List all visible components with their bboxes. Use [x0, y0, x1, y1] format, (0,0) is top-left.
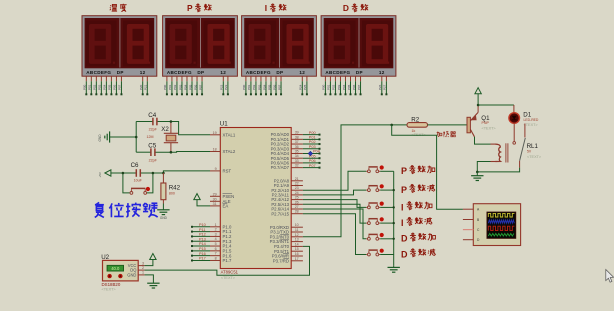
svg-text:X2: X2: [161, 126, 169, 133]
svg-text:40.0: 40.0: [111, 266, 120, 271]
reset push button: [122, 172, 155, 195]
wire relay common to ground node: [476, 168, 520, 174]
svg-text:3: 3: [215, 232, 217, 236]
svg-text:P22: P22: [220, 84, 224, 90]
svg-text:17: 17: [295, 257, 299, 261]
svg-text:P17: P17: [199, 257, 206, 261]
ground (R42): [157, 204, 169, 221]
svg-text:P2.7/A15: P2.7/A15: [271, 211, 289, 216]
svg-text:P3.7/RD: P3.7/RD: [273, 258, 289, 263]
svg-text:30: 30: [213, 197, 217, 201]
svg-text:P12: P12: [199, 233, 206, 237]
mouse cursor: [606, 270, 614, 283]
svg-text:27: 27: [295, 205, 299, 209]
svg-text:AT89C51: AT89C51: [221, 270, 239, 275]
svg-text:34: 34: [295, 154, 299, 158]
wire collector to relay coil: [475, 137, 491, 144]
svg-text:C6: C6: [131, 162, 139, 169]
svg-text:P00: P00: [83, 84, 87, 90]
wires: DS1 digit select pins 1,2: [139, 76, 148, 95]
push button D参数减: [366, 249, 384, 256]
svg-text:12M: 12M: [147, 135, 154, 139]
wires: DS2 segment pins A-G,DP: [163, 76, 203, 95]
svg-text:P03: P03: [337, 84, 341, 90]
svg-text:D: D: [401, 234, 408, 244]
svg-text:XTAL2: XTAL2: [223, 149, 236, 154]
push button P参数减: [366, 184, 384, 191]
svg-text:P00: P00: [309, 131, 316, 135]
svg-text:R42: R42: [169, 185, 181, 192]
svg-text:P14: P14: [199, 242, 206, 246]
svg-text:P02: P02: [332, 84, 336, 90]
svg-text:P20: P20: [139, 84, 143, 90]
svg-text:DP: DP: [197, 70, 204, 75]
svg-text:37: 37: [295, 140, 299, 144]
svg-text:P11: P11: [199, 228, 205, 232]
power +5V (Q1 emitter): [475, 88, 481, 105]
svg-text:7: 7: [215, 252, 217, 256]
capacitor C6: [111, 162, 163, 182]
svg-text:22: 22: [295, 182, 299, 186]
wire R2 to Q1 base: [392, 124, 467, 127]
svg-text:10: 10: [295, 223, 299, 227]
7-segment display DS4 (D value): [321, 16, 396, 76]
svg-text:21: 21: [295, 177, 299, 181]
wire XTAL2 net: [170, 151, 210, 154]
svg-text:28: 28: [295, 210, 299, 214]
power (U2 VCC): [145, 254, 157, 266]
LED D1: [509, 105, 539, 127]
svg-text:P13: P13: [199, 237, 206, 241]
svg-text:P06: P06: [113, 84, 117, 90]
svg-text:12: 12: [299, 70, 305, 75]
7-segment display DS3 (I value): [242, 16, 317, 76]
svg-text:ABCDEFG: ABCDEFG: [325, 70, 350, 75]
svg-text:16: 16: [295, 252, 299, 256]
label P参数减: [401, 184, 435, 195]
svg-text:P07: P07: [277, 84, 281, 90]
wires: P0 bus net labels P00-P07: [303, 131, 321, 169]
svg-text:RST: RST: [223, 169, 232, 174]
svg-text:DP: DP: [276, 70, 283, 75]
wires: P1 net labels P10-P17: [191, 223, 210, 261]
ground (crystal caps, rotated): [98, 131, 138, 142]
svg-text:ABCDEFG: ABCDEFG: [86, 70, 111, 75]
wire relay coil to ground node: [477, 162, 490, 172]
oscilloscope: [463, 204, 521, 246]
svg-text:EA: EA: [223, 204, 229, 209]
wire crystal left rail: [135, 122, 137, 153]
svg-text:ABCDEFG: ABCDEFG: [246, 70, 271, 75]
svg-text:29: 29: [213, 192, 217, 196]
svg-text:P10: P10: [199, 223, 206, 227]
svg-text:8: 8: [215, 256, 217, 260]
svg-text:P04: P04: [313, 150, 320, 154]
svg-text:11: 11: [295, 228, 299, 232]
crystal X2: [147, 122, 179, 153]
svg-text:10uF: 10uF: [134, 179, 143, 183]
svg-text:P21: P21: [144, 84, 148, 90]
svg-text:14: 14: [295, 242, 299, 246]
ground (U2 GND): [145, 275, 160, 288]
svg-text:P26: P26: [378, 84, 382, 90]
wires: DS1 segment pins A-G,DP: [83, 76, 123, 95]
svg-text:25: 25: [295, 196, 299, 200]
svg-text:32: 32: [295, 164, 299, 168]
svg-text:39: 39: [295, 131, 299, 135]
label D参数: [343, 3, 368, 13]
svg-text:P27: P27: [383, 84, 387, 90]
svg-text:P24: P24: [299, 84, 303, 90]
label 温度: [110, 4, 127, 12]
svg-text:C5: C5: [148, 142, 156, 149]
svg-text:GND: GND: [98, 134, 102, 142]
7-segment display DS2 (P value): [163, 16, 238, 76]
label 复位按键 (blue): [95, 202, 158, 217]
svg-text:I: I: [265, 3, 267, 13]
wire P2.3 to button P参数减: [303, 190, 366, 195]
svg-text:23: 23: [295, 186, 299, 190]
push button I参数加: [366, 202, 384, 209]
svg-text:35: 35: [295, 149, 299, 153]
svg-text:P01: P01: [168, 84, 172, 90]
wires: DS4 segment pins A-G,DP: [322, 76, 362, 95]
svg-text:P06: P06: [272, 84, 276, 90]
svg-text:P02: P02: [93, 84, 97, 90]
wire P3.2 to R2: [303, 125, 407, 237]
svg-text:P07: P07: [309, 164, 316, 168]
svg-text:U1: U1: [220, 120, 228, 127]
svg-text:U2: U2: [101, 254, 109, 261]
svg-text:13: 13: [295, 238, 299, 242]
wire P2.7 to button D参数减: [303, 214, 366, 255]
svg-text:P07: P07: [118, 84, 122, 90]
svg-text:P07: P07: [198, 84, 202, 90]
wire DQ to P3.4: [145, 246, 310, 275]
svg-text:D: D: [343, 3, 349, 13]
svg-text:P05: P05: [188, 84, 192, 90]
svg-text:P00: P00: [322, 84, 326, 90]
wire P2.6 to button D参数加: [303, 209, 366, 239]
svg-text:P0.7/AD7: P0.7/AD7: [271, 165, 290, 170]
svg-text:33: 33: [295, 159, 299, 163]
svg-text:2: 2: [215, 228, 217, 232]
svg-text:38: 38: [295, 135, 299, 139]
wire P2.5 to button I参数减: [303, 204, 366, 223]
label I参数加: [401, 201, 432, 212]
svg-text:<TEXT>: <TEXT>: [482, 126, 497, 130]
svg-text:24: 24: [295, 191, 299, 195]
svg-text:DP: DP: [117, 70, 124, 75]
svg-text:LED-RED: LED-RED: [524, 118, 539, 122]
svg-text:P02: P02: [252, 84, 256, 90]
ground (relay): [471, 172, 483, 181]
relay RL1: [491, 124, 542, 168]
svg-text:<TEXT>: <TEXT>: [527, 155, 542, 159]
label I参数: [265, 3, 287, 13]
svg-text:P05: P05: [267, 84, 271, 90]
svg-text:P01: P01: [309, 136, 316, 140]
svg-text:12: 12: [140, 70, 146, 75]
svg-text:P03: P03: [98, 84, 102, 90]
svg-text:3: 3: [142, 261, 144, 265]
svg-text:P23: P23: [224, 84, 228, 90]
wire XTAL1 net: [170, 120, 210, 135]
svg-text:P04: P04: [342, 84, 346, 90]
svg-text:1: 1: [215, 223, 217, 227]
7-segment display DS1 (temperature): [82, 16, 157, 76]
svg-text:P06: P06: [352, 84, 356, 90]
svg-text:GND: GND: [127, 273, 136, 278]
svg-text:I: I: [401, 202, 404, 212]
power +5V (left arrow): [98, 170, 111, 178]
svg-text:36: 36: [295, 145, 299, 149]
label P参数加: [401, 165, 435, 176]
svg-text:P06: P06: [193, 84, 197, 90]
push button D参数加: [366, 233, 384, 240]
microcontroller U1 AT89C51 body: [220, 120, 291, 279]
svg-text:P05: P05: [347, 84, 351, 90]
svg-text:P01: P01: [327, 84, 331, 90]
svg-text:2: 2: [142, 266, 144, 270]
capacitor C5: [136, 142, 171, 162]
svg-text:ABCDEFG: ABCDEFG: [167, 70, 192, 75]
svg-text:GND: GND: [160, 216, 168, 220]
svg-text:I: I: [401, 218, 404, 228]
svg-text:PNP: PNP: [482, 121, 490, 125]
svg-text:5V: 5V: [527, 150, 532, 154]
svg-text:XTAL1: XTAL1: [223, 132, 236, 137]
svg-text:P25: P25: [303, 84, 307, 90]
svg-text:800: 800: [169, 192, 175, 196]
svg-text:19: 19: [213, 131, 217, 135]
svg-text:15: 15: [295, 247, 299, 251]
svg-text:P: P: [187, 3, 193, 13]
svg-text:D: D: [401, 249, 408, 259]
wire emitter node: [477, 104, 514, 113]
svg-text:+5V: +5V: [98, 172, 102, 177]
svg-text:P15: P15: [199, 247, 206, 251]
wires: DS2 digit select pins 1,2: [220, 76, 229, 95]
svg-text:P03: P03: [309, 145, 316, 149]
svg-text:12: 12: [295, 233, 299, 237]
svg-text:P01: P01: [247, 84, 251, 90]
push button I参数减: [366, 217, 384, 224]
svg-text:<TEXT>: <TEXT>: [221, 276, 236, 280]
U1 right pin names and stubs: [270, 131, 303, 264]
wire button bus to ground: [380, 171, 395, 265]
svg-text:P00: P00: [242, 84, 246, 90]
wire P2.4 to button I参数加: [303, 200, 366, 208]
wire RST net: [162, 171, 210, 174]
voltage probe (blue diamond) on P0.4 net: [308, 151, 313, 156]
label D参数减: [401, 249, 436, 260]
svg-text:5: 5: [215, 242, 217, 246]
svg-text:6: 6: [215, 247, 217, 251]
push button P参数加: [366, 165, 384, 172]
wire P2.2 to button P参数加: [303, 171, 366, 190]
svg-text:P03: P03: [178, 84, 182, 90]
svg-text:P07: P07: [357, 84, 361, 90]
svg-text:22pF: 22pF: [149, 128, 158, 132]
svg-text:P04: P04: [262, 84, 266, 90]
svg-text:12: 12: [220, 70, 226, 75]
svg-text:P02: P02: [173, 84, 177, 90]
capacitor C4: [136, 112, 171, 132]
svg-text:P01: P01: [88, 84, 92, 90]
svg-text:P04: P04: [183, 84, 187, 90]
label P参数: [187, 3, 212, 13]
label D参数加: [401, 233, 435, 244]
svg-text:DS18B20: DS18B20: [102, 282, 121, 287]
svg-text:DP: DP: [356, 70, 363, 75]
wires: DS4 digit select pins 1,2: [378, 76, 387, 95]
svg-text:4: 4: [215, 237, 217, 241]
svg-text:9: 9: [215, 167, 217, 171]
svg-text:P: P: [401, 185, 407, 195]
label I参数减: [401, 217, 432, 228]
temperature sensor U2 DS18B20: [101, 254, 144, 292]
svg-text:P05: P05: [108, 84, 112, 90]
svg-text:1: 1: [142, 271, 144, 275]
wires: DS3 digit select pins 1,2: [299, 76, 308, 95]
svg-text:<TEXT>: <TEXT>: [524, 123, 539, 127]
resistor R2: [407, 116, 428, 137]
wire to oscilloscope A: [390, 124, 462, 210]
svg-text:26: 26: [295, 200, 299, 204]
svg-text:P06: P06: [309, 159, 316, 163]
svg-text:P1.7: P1.7: [223, 258, 232, 263]
U1 left pin names and stubs: [210, 131, 236, 263]
ground (buttons): [388, 266, 400, 272]
svg-text:P16: P16: [199, 252, 206, 256]
svg-text:31: 31: [213, 202, 217, 206]
wires: DS3 segment pins A-G,DP: [242, 76, 282, 95]
svg-text:P: P: [401, 166, 407, 176]
transistor Q1 (PNP): [467, 112, 496, 136]
resistor R42: [161, 173, 181, 204]
svg-text:P03: P03: [257, 84, 261, 90]
svg-text:P04: P04: [103, 84, 107, 90]
svg-text:P02: P02: [309, 140, 316, 144]
svg-text:12: 12: [379, 70, 385, 75]
svg-text:22pF: 22pF: [149, 158, 158, 162]
svg-text:P00: P00: [163, 84, 167, 90]
svg-text:<TEXT>: <TEXT>: [102, 287, 117, 291]
wire LED to relay contact: [513, 123, 515, 141]
svg-text:18: 18: [213, 148, 217, 152]
power +5V (EA pin): [194, 194, 210, 206]
label 加热器: [436, 131, 455, 137]
